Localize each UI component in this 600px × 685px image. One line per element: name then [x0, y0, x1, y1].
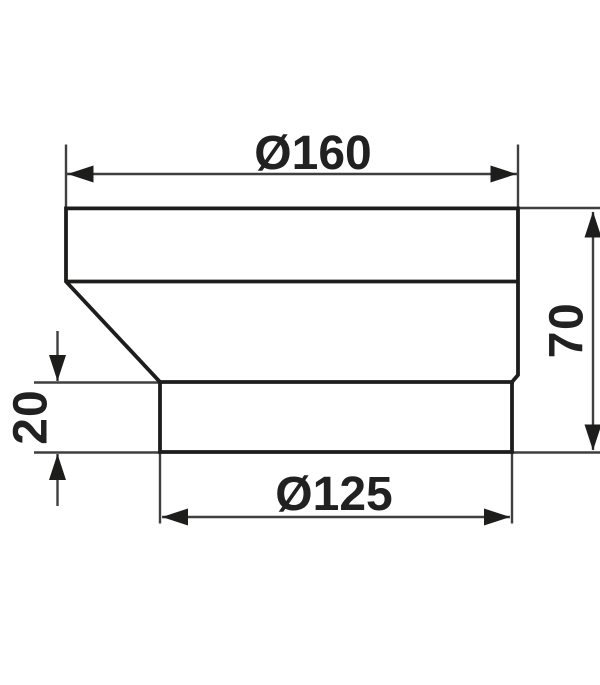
svg-text:20: 20: [5, 389, 58, 444]
arrowhead lower of dim 20 (pointing up): [49, 454, 66, 480]
dimension line Ø125: [162, 516, 510, 518]
svg-text:Ø125: Ø125: [275, 468, 392, 521]
arrowhead right of dim Ø125: [484, 509, 510, 526]
dimension line Ø160: [67, 173, 517, 175]
extension line top of dim 70: [518, 207, 600, 209]
extension line right of dim Ø125: [511, 452, 513, 524]
dimension line 20 lower stem: [56, 454, 58, 506]
extension line left of dim Ø125: [159, 452, 161, 524]
reducer collar seam upper: [66, 280, 518, 284]
extension line top of dim 20: [34, 381, 160, 383]
extension line bottom of dim 20: [34, 451, 160, 453]
arrowhead bottom of dim 70: [585, 425, 600, 451]
extension line right of dim Ø160: [517, 145, 519, 210]
dimension line 20 upper stem: [56, 331, 58, 381]
reducer collar seam lower: [160, 380, 514, 384]
svg-text:70: 70: [541, 302, 594, 358]
extension line left of dim Ø160: [65, 145, 67, 210]
dimension line 70: [592, 212, 594, 450]
reducer body outline: [66, 208, 518, 452]
svg-text:Ø160: Ø160: [254, 127, 371, 180]
arrowhead left of dim Ø160: [68, 166, 94, 183]
arrowhead upper of dim 20 (pointing down): [49, 355, 66, 381]
arrowhead top of dim 70: [585, 212, 600, 238]
arrowhead left of dim Ø125: [162, 509, 188, 526]
arrowhead right of dim Ø160: [491, 166, 517, 183]
extension line bottom of dim 70: [512, 451, 600, 453]
